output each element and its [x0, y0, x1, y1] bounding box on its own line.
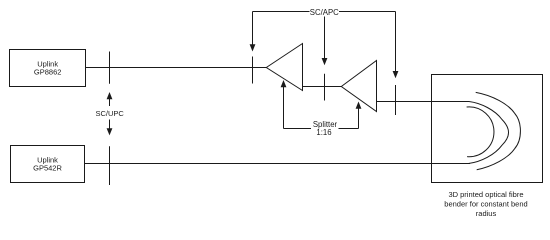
uplink box GP542R — [11, 146, 85, 183]
svg-text:3D printed optical fibre: 3D printed optical fibre — [448, 190, 523, 199]
wire: splitter 1 to splitter 2 — [303, 86, 342, 88]
uplink box GP8862 — [10, 50, 86, 87]
connector tick on top wire (SC/UPC) — [109, 52, 111, 84]
svg-text:SC/UPC: SC/UPC — [96, 109, 125, 118]
SC/APC middle drop arrow — [322, 12, 328, 66]
svg-text:GP542R: GP542R — [33, 163, 62, 172]
svg-text:bender for constant bend: bender for constant bend — [444, 200, 527, 209]
svg-text:1:16: 1:16 — [316, 128, 331, 137]
splitter triangle 1 — [266, 44, 302, 91]
fibre bend inner arc — [467, 107, 494, 157]
connector tick on bottom wire (SC/UPC) — [109, 146, 111, 185]
SC/APC right drop arrow — [393, 12, 399, 79]
svg-text:radius: radius — [476, 209, 497, 218]
wire bottom: GP542R to fibre bender — [85, 163, 471, 165]
fibre bender box — [432, 75, 543, 183]
caption: 3D printed optical fibre bender — [444, 190, 527, 218]
arrow up to top connector — [107, 92, 113, 106]
label SC/APC — [310, 7, 340, 17]
splitter label arrow to triangle 2 — [356, 102, 362, 129]
fibre bend outer arc — [476, 92, 521, 169]
splitter triangle 2 — [341, 61, 376, 112]
connector tick before splitter 1 (SC/APC) — [252, 57, 254, 84]
connector tick after splitter 2 (SC/APC) — [395, 85, 397, 115]
connector tick between splitters (SC/APC) — [324, 74, 326, 101]
SC/APC bracket line — [253, 11, 396, 13]
wire top: GP8862 to splitter 1 — [86, 67, 267, 69]
splitter label leader — [284, 128, 359, 130]
SC/APC left drop arrow — [250, 12, 256, 52]
label Splitter 1:16 — [313, 120, 338, 137]
splitter label arrow to triangle 1 — [281, 80, 287, 129]
fibre bend middle arc (top wire to bottom wire) — [469, 102, 509, 164]
wire: splitter 2 to fibre bender — [377, 101, 470, 103]
arrow down to bottom connector — [107, 120, 113, 136]
svg-text:GP8862: GP8862 — [34, 67, 62, 76]
svg-text:SC/APC: SC/APC — [310, 8, 339, 17]
